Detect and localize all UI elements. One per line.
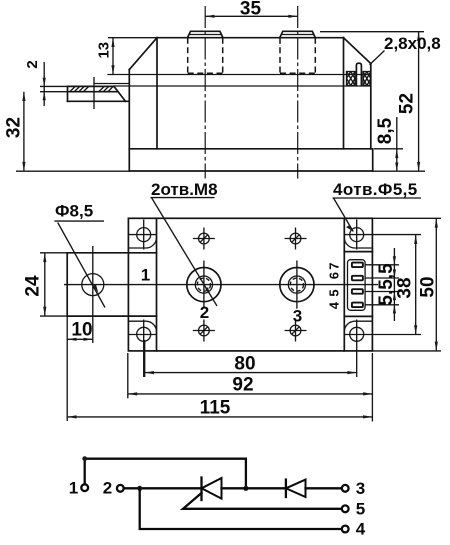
- inner vertical left: [156, 38, 158, 149]
- faston pin 2,8x0,8: [356, 63, 361, 85]
- faston pin cross-section left block: [347, 72, 356, 86]
- main rect: [128, 218, 372, 351]
- gate wire to terminal 5: [183, 493, 342, 509]
- pin 5: [352, 289, 363, 294]
- wire diode anode to terminal 3: [306, 487, 342, 489]
- base right edge: [372, 149, 374, 171]
- wire main: [124, 487, 202, 489]
- dimension 115: [67, 398, 372, 419]
- terminal 4: [342, 526, 349, 533]
- terminal 5: [342, 505, 349, 512]
- centerline terminal 1: [204, 6, 206, 179]
- pilot hole top-left: [193, 228, 215, 250]
- dimension 80: [145, 340, 357, 377]
- svg-text:10: 10: [71, 320, 92, 341]
- svg-text:2отв.М8: 2отв.М8: [151, 180, 218, 199]
- mounting tab top view: [67, 253, 156, 316]
- dimension 35: [205, 0, 298, 20]
- svg-text:3: 3: [356, 479, 365, 498]
- svg-text:2: 2: [103, 479, 112, 498]
- pilot hole top-right: [285, 228, 307, 250]
- mounting tab side body: [68, 86, 129, 101]
- terminal bump 1 cap: [188, 31, 223, 37]
- terminal 1: [81, 484, 88, 491]
- base plate bottom: [129, 170, 372, 172]
- svg-text:2,8x0,8: 2,8x0,8: [384, 34, 441, 53]
- extension bottom left: [16, 170, 129, 172]
- right chamfer: [344, 38, 371, 64]
- label F8,5: [54, 202, 105, 308]
- svg-text:8,5: 8,5: [375, 117, 396, 144]
- svg-text:Ф8,5: Ф8,5: [55, 202, 93, 221]
- hole top-left: [128, 220, 156, 250]
- dimension 52: [320, 32, 424, 172]
- svg-text:50: 50: [418, 276, 439, 297]
- extension line top left: [108, 37, 157, 39]
- extension lines for dim 2: [40, 86, 68, 91]
- svg-text:80: 80: [234, 354, 255, 375]
- svg-text:1: 1: [69, 479, 78, 498]
- svg-text:24: 24: [23, 275, 44, 297]
- terminal 2: [117, 485, 124, 492]
- svg-text:32: 32: [3, 117, 24, 138]
- label 2,8x0,8: [370, 34, 441, 65]
- M8 terminal 3: [280, 261, 314, 309]
- hole bottom-right: [344, 320, 421, 378]
- pin 6: [352, 276, 363, 281]
- base plate top: [129, 148, 372, 150]
- pin 7: [352, 263, 363, 268]
- left chamfer: [129, 38, 157, 70]
- main centerline horizontal: [64, 284, 378, 286]
- step line: [108, 74, 371, 76]
- dimension 8,5: [374, 117, 403, 171]
- body top surface: [157, 37, 344, 39]
- svg-text:2: 2: [24, 60, 41, 68]
- tab hole centerline: [92, 246, 94, 343]
- extension bottom right: [373, 170, 425, 172]
- pin 4: [352, 303, 363, 308]
- pad bottom-right: [344, 321, 372, 331]
- svg-text:3: 3: [293, 307, 302, 326]
- tab centerline: [93, 77, 95, 109]
- centerline terminal 2: [297, 6, 299, 179]
- dimension 38: [395, 235, 418, 335]
- svg-text:4отв.Ф5,5: 4отв.Ф5,5: [333, 180, 418, 199]
- svg-text:92: 92: [232, 375, 253, 396]
- svg-text:2: 2: [200, 303, 209, 322]
- node junction anode: [243, 486, 248, 491]
- dimension 92: [128, 353, 373, 422]
- hole top-right: [344, 220, 421, 250]
- dimension 2: [24, 60, 46, 106]
- terminal bump 1 hidden: [188, 38, 223, 73]
- terminal 3: [342, 485, 349, 492]
- label 2otv.M8: [151, 180, 218, 306]
- dimension 24: [23, 253, 68, 316]
- node top corner: [82, 456, 87, 461]
- inner wall right: [343, 218, 345, 351]
- terminal bump 2 cap: [280, 31, 316, 37]
- thyristor VS1: [202, 478, 222, 501]
- svg-text:38: 38: [395, 277, 416, 298]
- left body edge: [128, 70, 130, 172]
- connector right edge: [370, 64, 372, 149]
- mounting tab side: busbar plate: [68, 84, 130, 92]
- svg-text:5: 5: [326, 289, 341, 296]
- inner wall left: [156, 218, 158, 351]
- pad bottom-left: [128, 321, 156, 331]
- svg-text:13: 13: [95, 42, 112, 59]
- svg-text:52: 52: [397, 93, 418, 114]
- svg-text:115: 115: [200, 398, 231, 419]
- svg-text:4: 4: [356, 520, 366, 539]
- svg-text:7: 7: [326, 262, 341, 269]
- dimension 5,5,5: [376, 248, 397, 321]
- busbar hatching: [70, 87, 113, 92]
- pad top-left: [128, 238, 156, 248]
- svg-text:4: 4: [326, 301, 341, 309]
- faston pin cross-section right block: [363, 72, 371, 86]
- wire to terminal 4: [140, 488, 342, 529]
- pad top-right: [344, 238, 372, 248]
- wire terminal 1 riser: [85, 459, 246, 489]
- M8 terminal 2: [187, 261, 221, 309]
- right body edge: [343, 38, 345, 149]
- pin labels 4 5 6 7: [326, 262, 341, 309]
- dimension 13: [95, 38, 114, 75]
- pilot hole bottom-left: [193, 320, 215, 342]
- terminal bump 2 hidden: [280, 38, 315, 73]
- svg-text:35: 35: [240, 0, 262, 20]
- svg-text:5: 5: [356, 500, 365, 519]
- body ledge line: [114, 85, 371, 87]
- pin extension lines: [365, 265, 399, 305]
- connector block: [344, 252, 372, 317]
- wire thyristor anode: [222, 487, 286, 489]
- svg-text:6: 6: [326, 272, 341, 279]
- dimension 32: [3, 92, 25, 172]
- tab hole F8,5: [82, 274, 104, 296]
- dimension 50: [372, 218, 441, 351]
- dimension 10: [67, 316, 93, 421]
- svg-text:1: 1: [141, 266, 150, 285]
- node junction gate branch: [137, 486, 142, 491]
- hole bottom-left: [128, 320, 156, 378]
- diode VD1: [286, 480, 306, 497]
- label 4otv.F5,5: [333, 180, 422, 232]
- pilot hole bottom-right: [285, 320, 307, 342]
